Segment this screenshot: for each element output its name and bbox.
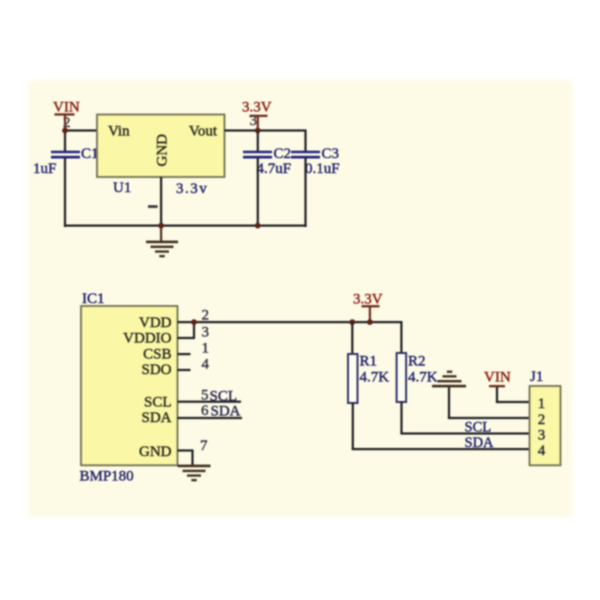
pin U1 GND (160, 177, 162, 226)
resistor R1 (348, 354, 358, 403)
ground symbol (below U1) (146, 227, 178, 257)
wire R1 to J1 pin 4 (SDA) (352, 448, 530, 450)
svg-text:VIN: VIN (53, 100, 80, 116)
svg-text:GND: GND (139, 444, 172, 460)
wire C3 to bottom rail (304, 158, 306, 227)
wire VIN to J1 pin 1 (496, 401, 530, 403)
IC IC1 BMP180 body (81, 306, 178, 465)
bottom ground rail (64, 225, 307, 227)
pin SDA (6) wire (178, 417, 243, 419)
svg-text:J1: J1 (530, 369, 543, 385)
junction dot VDD/VDDIO (191, 319, 197, 325)
pin GND (7) (178, 449, 194, 451)
svg-text:CSB: CSB (143, 347, 171, 363)
svg-text:VIN: VIN (484, 370, 511, 386)
wire Vout to C3 corner (225, 129, 307, 131)
connector J1 (530, 386, 561, 465)
junction dot rail/C2 (255, 223, 261, 229)
wire VDD junction to R network (192, 321, 403, 323)
svg-text:C3: C3 (322, 146, 340, 162)
wire C3 drop from top rail (304, 130, 306, 151)
svg-text:3.3v: 3.3v (176, 181, 208, 197)
wire C2 to bottom rail (257, 158, 259, 227)
svg-text:4.7uF: 4.7uF (257, 161, 292, 177)
svg-text:SDO: SDO (141, 362, 171, 378)
svg-text:5: 5 (201, 387, 209, 403)
wire VIN junction to U1 Vin pin (64, 129, 97, 131)
svg-text:2: 2 (538, 412, 546, 428)
wire junction down to C2 (257, 131, 259, 151)
svg-text:R2: R2 (408, 354, 426, 370)
svg-text:3: 3 (538, 427, 546, 443)
schematic sheet background (28, 80, 573, 517)
pin VDDIO (3) (178, 337, 196, 339)
junction dot VIN/C1/pin2 (62, 128, 68, 134)
svg-text:IC1: IC1 (82, 291, 105, 307)
svg-text:GND: GND (155, 134, 171, 167)
wire VIN down (496, 387, 498, 403)
pin CSB (1) (178, 353, 191, 355)
svg-text:1uF: 1uF (33, 161, 56, 177)
svg-text:1: 1 (202, 341, 210, 357)
voltage regulator U1 (97, 115, 225, 178)
junction dot 3.3V/C2 (255, 128, 261, 134)
pin SDO (4) (178, 369, 191, 371)
svg-text:U1: U1 (113, 180, 131, 196)
capacitor C3 (291, 151, 320, 159)
svg-text:SDA: SDA (211, 404, 241, 420)
svg-text:1: 1 (538, 396, 546, 412)
svg-text:VDD: VDD (139, 315, 172, 331)
svg-text:0.1uF: 0.1uF (305, 161, 340, 177)
wire ground down (448, 387, 450, 419)
svg-text:C2: C2 (274, 146, 292, 162)
svg-text:C1: C1 (81, 146, 99, 162)
wire ground to J1 pin 2 (448, 417, 530, 419)
svg-text:Vout: Vout (189, 124, 218, 140)
power port 3.3V (middle) (353, 292, 383, 321)
wire GND pin down to ground (191, 451, 193, 466)
svg-text:7: 7 (200, 438, 208, 454)
junction dot 3.3V stem/wire (367, 319, 373, 325)
capacitor C1 (51, 151, 80, 159)
svg-text:3: 3 (202, 325, 210, 341)
power port VIN (near J1) (484, 370, 511, 388)
ground symbol (below IC1) (178, 465, 211, 482)
power port 3.3V (top) (242, 100, 272, 130)
ground port (inverted, near R2) (432, 371, 466, 388)
svg-text:4.7K: 4.7K (408, 370, 438, 386)
svg-text:SCL: SCL (465, 420, 492, 436)
pin SCL (5) wire (178, 401, 242, 403)
svg-text:Vin: Vin (108, 124, 130, 140)
wire R1 bottom down (352, 403, 354, 449)
junction dot rail/U1 GND (158, 223, 164, 229)
svg-text:VDDIO: VDDIO (123, 331, 171, 347)
svg-text:SCL: SCL (144, 394, 172, 410)
wire VDDIO up to VDD (193, 322, 195, 339)
resistor R2 (397, 353, 407, 402)
pin number 1 (U1 GND, rotated) (148, 205, 158, 208)
wire R2 bottom down (400, 402, 402, 434)
svg-text:4.7K: 4.7K (360, 370, 390, 386)
svg-text:BMP180: BMP180 (80, 469, 134, 485)
wire C1 to bottom rail (64, 158, 66, 227)
pin VDD (2) (178, 321, 194, 323)
svg-text:SDA: SDA (141, 410, 171, 426)
svg-text:4: 4 (202, 356, 210, 372)
svg-text:6: 6 (201, 403, 209, 419)
wire down to R1 (351, 322, 353, 354)
wire corner down to R2 (400, 321, 402, 353)
svg-text:SCL: SCL (210, 388, 238, 404)
svg-text:4: 4 (538, 443, 546, 459)
svg-text:R1: R1 (360, 354, 378, 370)
junction dot R1/3.3V wire (349, 319, 355, 325)
power port VIN (top left) (53, 100, 80, 130)
wire R2 to J1 pin 3 (SCL) (400, 432, 529, 434)
wire VIN junction down to C1 (64, 130, 66, 151)
svg-text:3: 3 (250, 113, 258, 129)
capacitor C2 (243, 151, 272, 159)
svg-text:SDA: SDA (465, 435, 495, 451)
